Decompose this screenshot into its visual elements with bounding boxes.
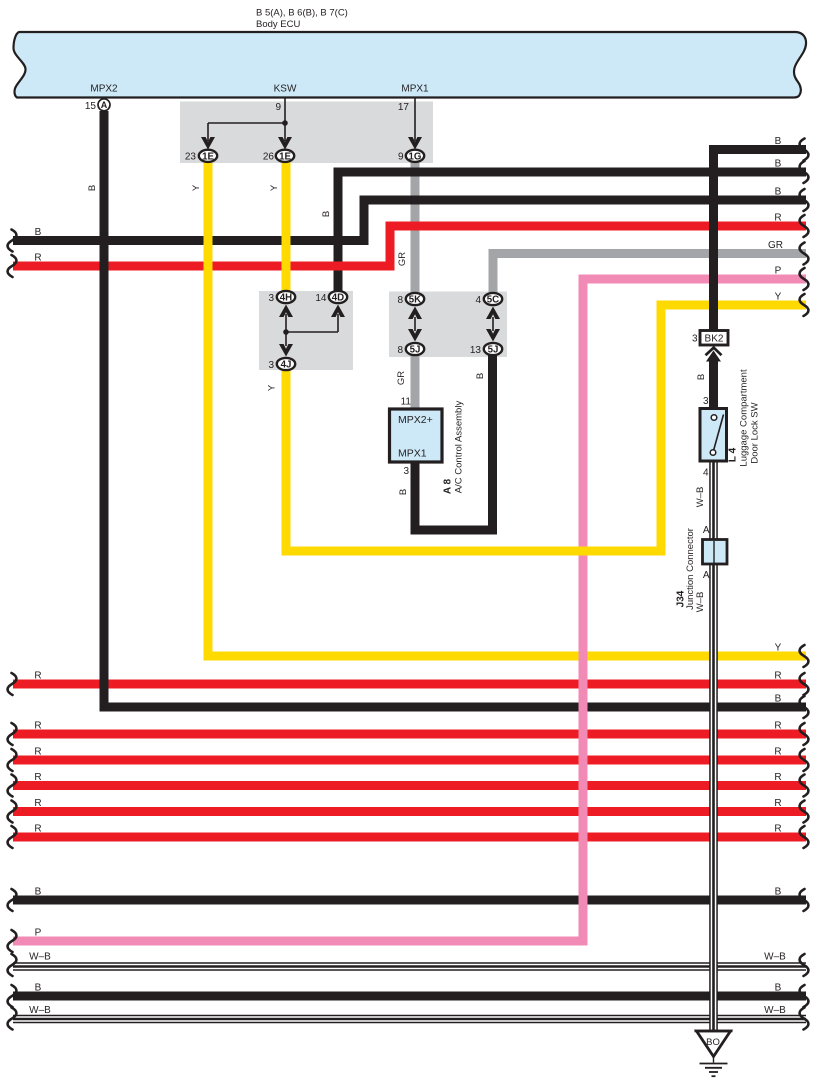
svg-text:11: 11 bbox=[401, 397, 412, 408]
terminal 4J pin 3 bbox=[277, 358, 295, 370]
svg-text:R: R bbox=[774, 747, 781, 758]
svg-text:B: B bbox=[35, 227, 42, 238]
wire end R left y=266 bbox=[8, 255, 17, 277]
wire end B right y=900 bbox=[800, 889, 809, 911]
wire end W–B left y=965 bbox=[8, 954, 17, 976]
svg-text:W–B: W–B bbox=[29, 952, 51, 963]
wire R right edge to left edge bbox=[13, 226, 806, 266]
wire end W–B left y=1018.5 bbox=[8, 1008, 17, 1030]
svg-text:R: R bbox=[34, 721, 41, 732]
svg-text:A: A bbox=[703, 525, 710, 536]
svg-text:BO: BO bbox=[706, 1037, 720, 1048]
arrow into 4J bbox=[279, 344, 293, 357]
svg-text:R: R bbox=[34, 798, 41, 809]
wire W-B row 2 bbox=[13, 1015, 806, 1024]
svg-text:MPX2+: MPX2+ bbox=[398, 414, 433, 426]
svg-text:B 5(A), B 6(B), B 7(C): B 5(A), B 6(B), B 7(C) bbox=[256, 8, 348, 19]
terminal 5K pin 8 bbox=[406, 293, 424, 305]
arrow into 1E (26) bbox=[278, 137, 292, 150]
terminal 1E pin 23 bbox=[199, 150, 217, 162]
wire B row lower bbox=[13, 896, 806, 905]
wire R row 4 bbox=[13, 781, 806, 790]
wire end R right y=734 bbox=[800, 723, 809, 745]
svg-text:R: R bbox=[774, 824, 781, 835]
wire end R right y=760 bbox=[800, 749, 809, 771]
wire end B left y=240.5 bbox=[8, 230, 17, 252]
svg-text:Y: Y bbox=[269, 184, 280, 191]
svg-text:KSW: KSW bbox=[274, 84, 297, 95]
wire B right edge to 4D bbox=[338, 172, 806, 294]
wire end R right y=785.5 bbox=[800, 775, 809, 797]
svg-text:5J: 5J bbox=[488, 345, 499, 356]
svg-text:R: R bbox=[774, 213, 781, 224]
svg-text:B: B bbox=[87, 185, 98, 191]
svg-text:R: R bbox=[774, 798, 781, 809]
wire GR from right edge to 5C bbox=[493, 254, 806, 296]
svg-text:A 8: A 8 bbox=[443, 478, 454, 494]
junction connector J34 bbox=[703, 540, 728, 565]
svg-text:4J: 4J bbox=[281, 360, 292, 371]
wire end R left y=811.5 bbox=[8, 801, 17, 823]
svg-text:B: B bbox=[775, 983, 782, 994]
terminal 1G pin 9 bbox=[406, 150, 424, 162]
svg-text:8: 8 bbox=[397, 295, 403, 306]
wire P right edge to left edge bbox=[13, 279, 806, 941]
terminal 4H pin 3 bbox=[277, 291, 295, 303]
svg-text:13: 13 bbox=[470, 345, 482, 356]
svg-text:4H: 4H bbox=[280, 293, 292, 304]
wire Y 1E(23) to right edge bbox=[208, 162, 806, 656]
connector block shading (5K/5C/5J) bbox=[389, 292, 507, 358]
wire end GR right y=253.5 bbox=[800, 243, 809, 265]
svg-text:4: 4 bbox=[475, 295, 481, 306]
wire end R right y=837 bbox=[800, 826, 809, 848]
svg-text:Door Lock SW: Door Lock SW bbox=[750, 402, 761, 463]
switch L4 Luggage Compartment Door Lock SW bbox=[700, 409, 727, 462]
svg-text:P: P bbox=[35, 928, 42, 939]
terminal 5J pin 8 bbox=[406, 343, 424, 355]
wire end P left y=941 bbox=[8, 930, 17, 952]
svg-text:8: 8 bbox=[397, 345, 403, 356]
connector block shading (4H/4D/4J) bbox=[259, 291, 353, 370]
wire W-B L4 to ground bbox=[709, 461, 718, 1031]
svg-text:23: 23 bbox=[185, 152, 197, 163]
svg-text:R: R bbox=[34, 772, 41, 783]
wire B right edge to BK2 bbox=[714, 150, 807, 332]
svg-text:R: R bbox=[34, 824, 41, 835]
wire end R left y=734 bbox=[8, 723, 17, 745]
svg-text:Body ECU: Body ECU bbox=[256, 19, 300, 30]
svg-text:Y: Y bbox=[775, 292, 782, 303]
wire end Y right y=656 bbox=[800, 645, 809, 667]
svg-text:Luggage Compartment: Luggage Compartment bbox=[739, 369, 750, 467]
svg-text:W–B: W–B bbox=[695, 592, 706, 613]
svg-text:L 4: L 4 bbox=[728, 447, 739, 462]
svg-text:P: P bbox=[775, 266, 782, 277]
svg-text:5K: 5K bbox=[409, 295, 421, 306]
wire KSW pin 9 branch bbox=[208, 98, 415, 141]
ground symbol bbox=[713, 1056, 715, 1063]
wire 4H/4D/4J link bbox=[286, 314, 338, 346]
svg-text:3: 3 bbox=[403, 466, 409, 477]
terminal 1E pin 26 bbox=[276, 150, 294, 162]
svg-text:4: 4 bbox=[703, 468, 709, 479]
arrow into 5C bbox=[486, 307, 500, 320]
wire end W–B right y=965 bbox=[800, 954, 809, 976]
svg-text:R: R bbox=[774, 721, 781, 732]
connector block shading (1E/1G) bbox=[180, 102, 433, 164]
arrow into 4D bbox=[331, 305, 345, 318]
svg-text:GR: GR bbox=[768, 240, 783, 251]
terminal 5C pin 4 bbox=[484, 293, 502, 305]
arrow into 4H bbox=[279, 305, 293, 318]
svg-text:W–B: W–B bbox=[695, 487, 706, 508]
svg-text:W–B: W–B bbox=[29, 1005, 51, 1016]
arrow into 1E (23) bbox=[201, 137, 215, 150]
svg-text:3: 3 bbox=[703, 396, 709, 407]
svg-text:GR: GR bbox=[396, 371, 407, 385]
wire end R right y=226 bbox=[800, 215, 809, 237]
svg-text:5J: 5J bbox=[410, 345, 421, 356]
wire end B right y=149.5 bbox=[800, 139, 809, 161]
wire end B right y=707 bbox=[800, 696, 809, 718]
svg-text:A: A bbox=[101, 100, 108, 110]
wire end B right y=996 bbox=[800, 985, 809, 1007]
svg-text:5C: 5C bbox=[487, 295, 499, 306]
svg-text:B: B bbox=[475, 373, 486, 379]
wire end B right y=172 bbox=[800, 161, 809, 183]
wire B A/C pin3 to 5J(13) bbox=[415, 352, 493, 530]
svg-text:3: 3 bbox=[268, 293, 274, 304]
svg-text:MPX1: MPX1 bbox=[398, 448, 427, 460]
wire GR 1G to 5K bbox=[411, 162, 420, 295]
wire end B left y=996 bbox=[8, 985, 17, 1007]
arrow into 1G (9) bbox=[408, 137, 422, 150]
terminal 5J pin 13 bbox=[484, 343, 502, 355]
svg-text:Y: Y bbox=[191, 184, 202, 191]
svg-text:B: B bbox=[775, 159, 782, 170]
svg-text:9: 9 bbox=[275, 102, 281, 113]
wire B MPX2 to right edge bbox=[104, 111, 806, 707]
wire R row 1 bbox=[13, 680, 806, 689]
svg-text:9: 9 bbox=[398, 152, 404, 163]
svg-text:26: 26 bbox=[263, 152, 275, 163]
svg-text:3: 3 bbox=[268, 360, 274, 371]
junction 4H/4J bbox=[283, 329, 289, 335]
wire end B left y=900 bbox=[8, 889, 17, 911]
wire GR 5J to A/C pin 11 bbox=[411, 352, 420, 409]
svg-text:14: 14 bbox=[315, 293, 327, 304]
wire end R left y=785.5 bbox=[8, 775, 17, 797]
arrow connector BK2 bbox=[706, 348, 722, 356]
svg-text:Junction Connector: Junction Connector bbox=[685, 528, 696, 610]
svg-text:4D: 4D bbox=[332, 293, 344, 304]
wire Y 4J to right edge bbox=[286, 305, 806, 551]
svg-text:B: B bbox=[775, 136, 782, 147]
svg-text:R: R bbox=[34, 671, 41, 682]
svg-text:1E: 1E bbox=[202, 151, 214, 162]
svg-text:W–B: W–B bbox=[764, 1005, 786, 1016]
wire end R left y=837 bbox=[8, 826, 17, 848]
svg-text:B: B bbox=[398, 489, 409, 495]
svg-text:B: B bbox=[775, 187, 782, 198]
svg-text:R: R bbox=[34, 747, 41, 758]
ground BO triangle bbox=[697, 1031, 731, 1057]
wire W-B row 1 bbox=[13, 962, 806, 971]
svg-text:BK2: BK2 bbox=[705, 333, 724, 344]
svg-text:A/C Control Assembly: A/C Control Assembly bbox=[454, 401, 465, 494]
svg-text:1G: 1G bbox=[409, 151, 422, 162]
wire end B right y=200 bbox=[800, 189, 809, 211]
wire end Y right y=305 bbox=[800, 294, 809, 316]
svg-text:1E: 1E bbox=[279, 151, 291, 162]
svg-text:B: B bbox=[775, 694, 782, 705]
wire end R left y=684 bbox=[8, 673, 17, 695]
svg-text:MPX2: MPX2 bbox=[90, 84, 118, 95]
wire end R left y=760 bbox=[8, 749, 17, 771]
svg-text:R: R bbox=[774, 772, 781, 783]
svg-text:A: A bbox=[703, 570, 710, 581]
svg-text:Y: Y bbox=[267, 384, 278, 391]
wire Y 1E(26) to 4H bbox=[282, 162, 291, 296]
svg-text:B: B bbox=[696, 374, 707, 380]
svg-text:Y: Y bbox=[775, 643, 782, 654]
wire R row 5 bbox=[13, 807, 806, 816]
svg-text:17: 17 bbox=[398, 102, 410, 113]
wire R row 3 bbox=[13, 756, 806, 765]
svg-text:MPX1: MPX1 bbox=[401, 84, 429, 95]
wire R row 2 bbox=[13, 730, 806, 739]
arrow into 5J(13) bbox=[486, 329, 500, 342]
ECU A8 A/C Control Assembly (MPX2+/MPX1) bbox=[390, 409, 443, 462]
wire end W–B right y=1018.5 bbox=[800, 1008, 809, 1030]
svg-text:W–B: W–B bbox=[764, 952, 786, 963]
svg-text:GR: GR bbox=[397, 252, 408, 266]
wire B BK2 arrow to L4 switch bbox=[709, 357, 718, 409]
wire B row bottom bbox=[13, 992, 806, 1001]
pin 15 terminal A bbox=[98, 99, 110, 111]
svg-text:B: B bbox=[775, 887, 782, 898]
wire R row 6 bbox=[13, 833, 806, 842]
svg-text:B: B bbox=[35, 983, 42, 994]
wire end R right y=811.5 bbox=[800, 801, 809, 823]
wire end P right y=279 bbox=[800, 268, 809, 290]
svg-text:3: 3 bbox=[692, 333, 698, 344]
Body ECU block B5(A)/B6(B)/B7(C) bbox=[14, 32, 807, 98]
svg-text:R: R bbox=[34, 253, 41, 264]
svg-text:15: 15 bbox=[85, 101, 97, 112]
wire 5K-5J link bbox=[415, 317, 493, 331]
arrow into 5K bbox=[408, 307, 422, 320]
wire B right edge to left edge bbox=[13, 200, 806, 241]
svg-text:B: B bbox=[35, 887, 42, 898]
connector BK2 bbox=[700, 331, 728, 346]
arrow into 5J(8) bbox=[408, 329, 422, 342]
svg-text:B: B bbox=[321, 211, 332, 217]
terminal 4D pin 14 bbox=[329, 291, 347, 303]
svg-text:R: R bbox=[774, 671, 781, 682]
wire end R right y=684 bbox=[800, 673, 809, 695]
junction KSW bbox=[282, 120, 288, 126]
